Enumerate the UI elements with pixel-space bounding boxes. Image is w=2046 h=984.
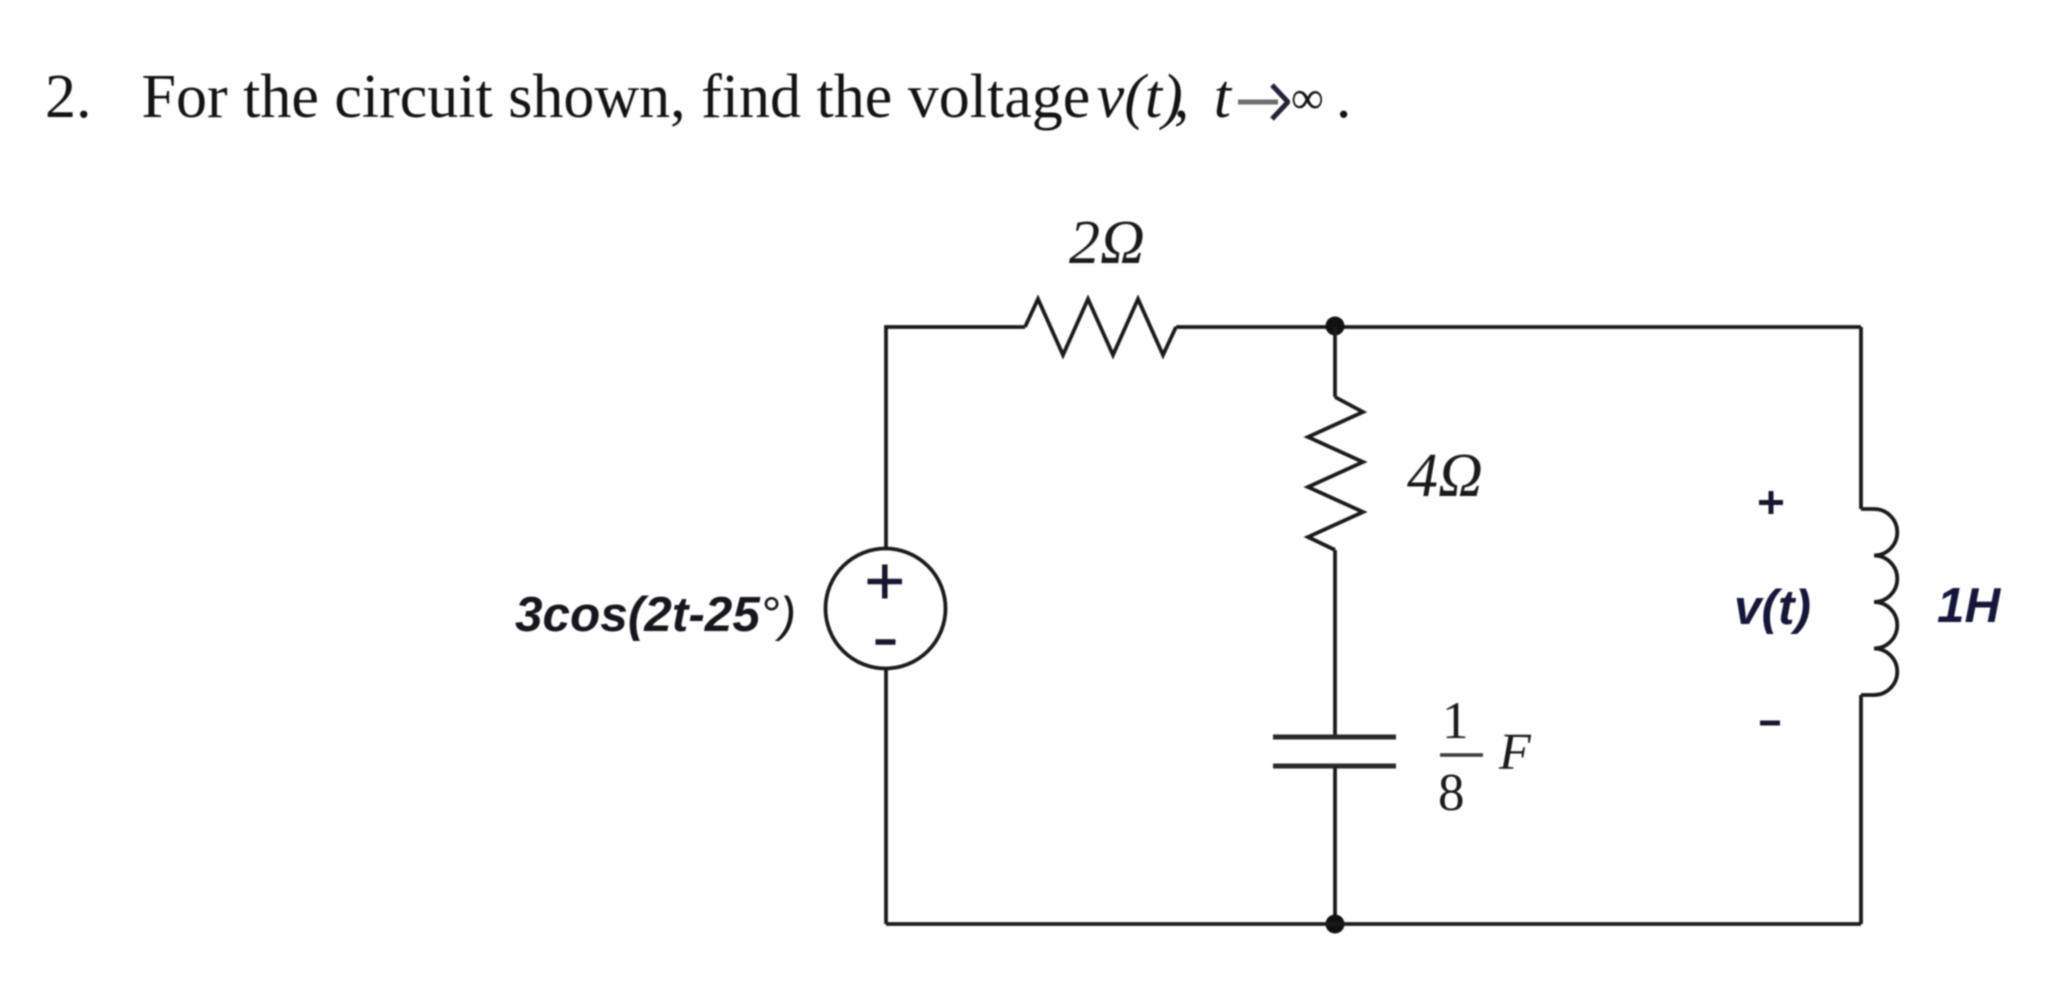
wire: top-left from source top to 2-ohm resistor — [886, 327, 1025, 549]
svg-text:4Ω: 4Ω — [1407, 442, 1483, 510]
svg-text:3cos(2t-25°): 3cos(2t-25°) — [515, 587, 796, 642]
svg-text:F: F — [1498, 724, 1532, 781]
svg-text:2Ω: 2Ω — [1069, 209, 1145, 277]
wire: top from resistor R1 to top-right corner — [1176, 325, 1861, 329]
wire: bottom rail — [886, 922, 1861, 926]
label plus (v(t) polarity) — [1759, 491, 1783, 514]
wire: capacitor C1 to bottom node — [1333, 768, 1337, 924]
svg-text:1H: 1H — [1937, 578, 2002, 633]
svg-text:v(t): v(t) — [1734, 580, 1811, 635]
node B (bottom junction dot) — [1326, 915, 1345, 934]
wire: inductor bottom to bottom-right corner — [1859, 695, 1863, 924]
capacitor C1 top plate — [1273, 735, 1396, 740]
capacitor C1 bottom plate — [1273, 764, 1396, 769]
voltage source VS plus sign — [868, 565, 903, 599]
voltage source VS circle — [826, 549, 946, 669]
wire: top-right corner down to inductor — [1859, 327, 1863, 509]
node A (top junction dot) — [1326, 317, 1345, 336]
wire: node A down to 4-ohm resistor — [1333, 327, 1337, 397]
resistor R1 2ohm (horizontal zigzag) — [1025, 299, 1176, 355]
voltage source VS minus sign — [876, 639, 896, 645]
label 1/8 F: fraction bar — [1440, 753, 1483, 757]
wire: bottom-left up to source bottom — [884, 668, 888, 924]
svg-text:1: 1 — [1442, 692, 1469, 750]
label minus (v(t) polarity) — [1760, 721, 1780, 726]
resistor R2 4ohm (vertical zigzag) — [1308, 397, 1363, 550]
inductor L1 coil (4 bumps) — [1861, 509, 1897, 695]
wire: resistor R2 to capacitor C1 — [1333, 550, 1337, 735]
svg-text:8: 8 — [1438, 764, 1465, 822]
problem statement text — [45, 66, 1351, 128]
